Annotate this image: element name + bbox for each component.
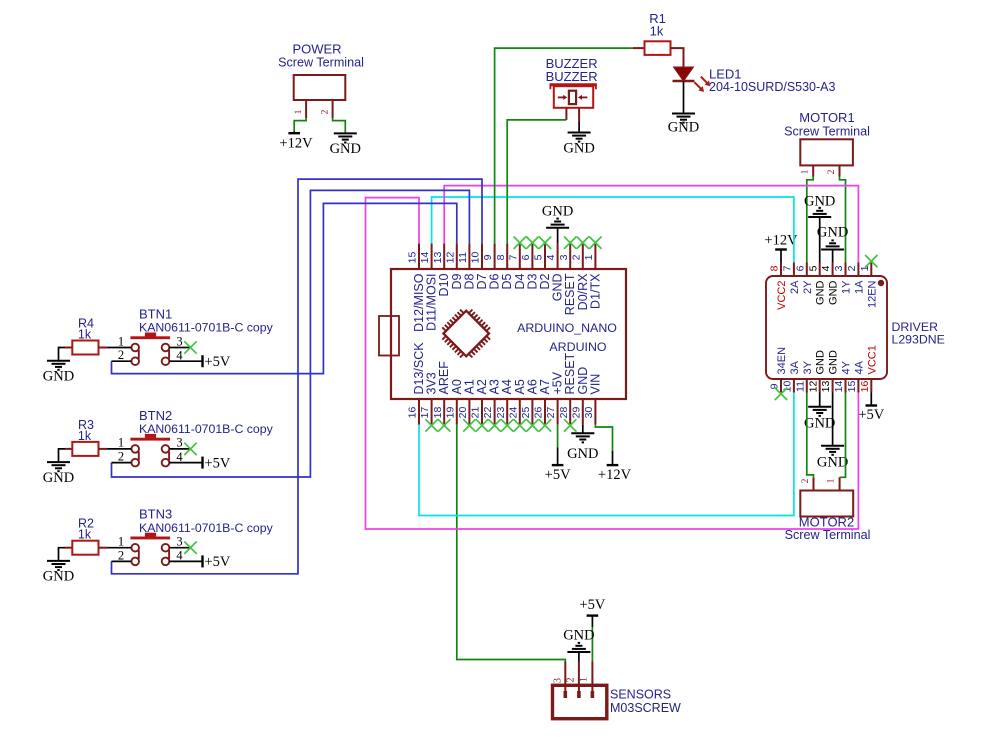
wire BUZZER pin2 to GND	[578, 122, 580, 133]
pin 29 (GND) of ARDUINO_NANO	[570, 367, 589, 425]
svg-text:2: 2	[566, 678, 577, 683]
pin 28 (RESET) of ARDUINO_NANO	[558, 352, 577, 424]
power +5V (SENSORS)	[579, 597, 605, 616]
svg-text:2: 2	[570, 254, 582, 260]
pin 5 (D2) of ARDUINO_NANO	[533, 243, 552, 289]
svg-text:1k: 1k	[78, 328, 92, 342]
svg-text:15: 15	[846, 381, 858, 393]
wire LED1 to GND	[683, 81, 685, 114]
svg-text:1: 1	[859, 265, 871, 271]
svg-text:MOTOR1: MOTOR1	[799, 110, 854, 125]
svg-text:3: 3	[176, 334, 182, 348]
no-connect flag DRIVER pin9 34EN	[775, 388, 787, 400]
svg-text:1k: 1k	[78, 429, 92, 443]
svg-text:KAN0611-0701B-C copy: KAN0611-0701B-C copy	[139, 521, 274, 535]
pin 5 (GND) of DRIVER	[807, 263, 826, 305]
svg-text:1: 1	[118, 334, 124, 348]
svg-text:2: 2	[846, 265, 858, 271]
pin 13 (GND) of DRIVER	[820, 350, 839, 393]
pin 14 (D11/MOSI) of ARDUINO_NANO	[419, 243, 438, 331]
svg-text:12EN: 12EN	[866, 280, 878, 308]
svg-text:4: 4	[820, 265, 832, 271]
pin 3 (RESET) of ARDUINO_NANO	[558, 243, 577, 315]
ground (nano pin4)	[542, 203, 573, 227]
svg-text:23: 23	[495, 407, 507, 419]
pin 17 (3V3) of ARDUINO_NANO	[419, 372, 438, 424]
svg-text:GND: GND	[563, 627, 594, 643]
svg-text:29: 29	[570, 407, 582, 419]
power +12V (POWER)	[279, 131, 313, 151]
svg-text:+5V: +5V	[205, 455, 231, 471]
ground (DRIVER pin13)	[817, 446, 848, 471]
pushbutton BTN2 KAN0611-0701B-C copy	[108, 408, 274, 467]
svg-text:16: 16	[407, 407, 419, 419]
pin 8 (VCC2) of DRIVER	[769, 263, 788, 310]
pin 23 (A4) of ARDUINO_NANO	[495, 379, 514, 425]
svg-text:BTN2: BTN2	[139, 408, 172, 423]
svg-text:7: 7	[782, 265, 794, 271]
svg-text:ARDUINO_NANO: ARDUINO_NANO	[517, 321, 617, 335]
svg-text:L293DNE: L293DNE	[892, 333, 945, 347]
svg-text:1: 1	[118, 535, 124, 549]
pin 16 (D13/SCK) of ARDUINO_NANO	[407, 342, 426, 425]
wire net D5 (green): nano pin8 to BUZZER	[507, 120, 566, 243]
svg-text:ARDUINO: ARDUINO	[549, 340, 606, 354]
ground (BTN3 side)	[43, 561, 74, 585]
svg-text:27: 27	[545, 407, 557, 419]
svg-text:GND: GND	[542, 203, 573, 219]
ground (DRIVER pin5)	[804, 194, 835, 218]
wire R3 to GND	[59, 449, 66, 462]
pin 14 (4Y) of DRIVER	[833, 360, 852, 392]
wire DRIVER 3Y to MOTOR2 pin2	[807, 393, 814, 478]
svg-text:17: 17	[419, 407, 431, 419]
wire SENSORS pin2 to GND	[578, 652, 580, 662]
svg-text:6: 6	[794, 265, 806, 271]
wire POWER pin1 to +12V	[294, 118, 306, 131]
svg-text:13: 13	[432, 252, 444, 264]
pin 24 (A5) of ARDUINO_NANO	[507, 379, 526, 425]
svg-text:D1/TX: D1/TX	[588, 273, 602, 309]
svg-text:15: 15	[407, 252, 419, 264]
svg-text:4: 4	[176, 450, 183, 464]
svg-text:GND: GND	[817, 454, 848, 470]
connector MOTOR2 Screw Terminal	[785, 477, 871, 542]
svg-text:3: 3	[833, 265, 845, 271]
wire DRIVER pin5 GND	[819, 217, 821, 263]
svg-text:+5V: +5V	[205, 554, 231, 570]
svg-text:8: 8	[495, 254, 507, 260]
svg-text:1k: 1k	[78, 528, 92, 542]
svg-text:+5V: +5V	[205, 354, 231, 370]
ground (LED1)	[668, 114, 699, 136]
svg-text:18: 18	[432, 407, 444, 419]
svg-text:GND: GND	[330, 141, 361, 157]
resistor R3	[65, 418, 108, 456]
IC DRIVER L293DNE	[766, 276, 945, 379]
wire MOTOR1 pin2 to driver 1Y	[840, 177, 846, 263]
ground (nano pin29)	[567, 433, 598, 462]
power +5V (BTN1 pin4)	[203, 354, 231, 370]
pin 11 (3Y) of DRIVER	[794, 360, 813, 392]
wire DRIVER pin4 GND	[832, 250, 834, 263]
svg-text:4: 4	[545, 254, 557, 260]
no-connect flag BTN2 pin3	[184, 443, 196, 455]
wire net D7 (blue): nano pin10 to BTN3	[112, 179, 483, 574]
svg-text:Screw Terminal: Screw Terminal	[278, 56, 364, 70]
svg-text:25: 25	[520, 407, 532, 419]
svg-text:+5V: +5V	[858, 407, 884, 423]
pin 15 (4A) of DRIVER	[846, 360, 865, 392]
no-connect flag DRIVER pin1 12EN	[865, 255, 877, 267]
wire R4 to GND	[59, 348, 66, 361]
svg-text:14: 14	[833, 381, 845, 393]
svg-text:POWER: POWER	[292, 42, 341, 57]
svg-text:4A: 4A	[853, 360, 865, 374]
wire DRIVER VCC2 to +12V	[780, 250, 782, 263]
svg-text:1A: 1A	[853, 280, 865, 294]
wire DRIVER pin12 GND	[819, 393, 821, 407]
svg-text:30: 30	[583, 407, 595, 419]
svg-text:11: 11	[457, 252, 469, 263]
svg-text:24: 24	[507, 407, 519, 419]
wire nano A0 to SENSORS pin3	[457, 425, 566, 662]
svg-text:KAN0611-0701B-C copy: KAN0611-0701B-C copy	[139, 422, 274, 436]
pin 9 (D6) of ARDUINO_NANO	[482, 243, 501, 289]
svg-text:22: 22	[482, 407, 494, 419]
ground (DRIVER pin4)	[817, 225, 848, 250]
no-connect flag BTN3 pin3	[184, 542, 196, 554]
svg-text:5: 5	[533, 254, 545, 260]
svg-text:2Y: 2Y	[802, 280, 814, 294]
pin 4 (GND) of DRIVER	[820, 263, 839, 305]
wire R1 to LED1	[682, 48, 684, 67]
wire nano pin27 to +5V	[557, 425, 559, 465]
svg-text:3: 3	[552, 678, 563, 683]
ground (BTN2 side)	[43, 462, 74, 486]
IC chip glyph (diamond)	[442, 310, 490, 358]
svg-text:GND: GND	[804, 194, 835, 210]
svg-text:11: 11	[794, 381, 806, 392]
no-connect flag BTN1 pin3	[184, 341, 196, 353]
svg-text:Screw Terminal: Screw Terminal	[784, 124, 870, 138]
svg-text:+12V: +12V	[598, 467, 632, 483]
ground (DRIVER pin12)	[804, 407, 835, 432]
svg-text:3: 3	[558, 254, 570, 260]
svg-text:BTN3: BTN3	[139, 507, 172, 522]
svg-text:8: 8	[769, 265, 781, 271]
pin 7 (2A) of DRIVER	[782, 263, 801, 294]
pin 27 (+5V) of ARDUINO_NANO	[545, 371, 564, 424]
svg-text:GND: GND	[567, 446, 598, 462]
pin 4 (GND) of ARDUINO_NANO	[545, 243, 564, 301]
power +5V (nano pin27)	[545, 465, 571, 483]
svg-text:VCC1: VCC1	[866, 345, 878, 374]
svg-text:14: 14	[419, 252, 431, 264]
power +12V (nano VIN)	[598, 465, 632, 483]
resistor R2	[65, 517, 108, 555]
wire net D8 (blue): nano pin11 to BTN2	[112, 190, 470, 477]
svg-text:Screw Terminal: Screw Terminal	[785, 528, 871, 542]
pin 12 (D9) of ARDUINO_NANO	[444, 243, 463, 289]
pin 10 (D7) of ARDUINO_NANO	[470, 243, 489, 289]
pin 21 (A2) of ARDUINO_NANO	[470, 379, 489, 425]
svg-text:1: 1	[118, 436, 124, 450]
pin 6 (2Y) of DRIVER	[794, 263, 813, 294]
svg-text:1: 1	[294, 109, 304, 114]
svg-text:SENSORS: SENSORS	[610, 688, 671, 702]
connector SENSORS M03SCREW	[552, 662, 681, 719]
svg-text:16: 16	[859, 381, 871, 393]
svg-text:5: 5	[807, 265, 819, 271]
pin 6 (D3) of ARDUINO_NANO	[520, 243, 539, 289]
svg-text:3A: 3A	[789, 360, 801, 374]
wire net D6 (green): nano pin9 to R1	[495, 48, 633, 243]
no-connect flags ARDUINO_NANO top pins D4,D3,D2,RESET,D0/RX,D1/TX	[514, 237, 602, 249]
svg-text:3: 3	[176, 436, 182, 450]
ground (BUZZER)	[563, 133, 594, 157]
svg-text:GND: GND	[668, 120, 699, 136]
pin 10 (3A) of DRIVER	[782, 360, 801, 392]
svg-text:VIN: VIN	[588, 374, 602, 395]
svg-text:19: 19	[444, 407, 456, 419]
wire POWER pin2 to GND	[333, 118, 346, 133]
wire net D12/MISO (magenta): nano pin15 to DRIVER 4A	[366, 198, 859, 529]
svg-text:BUZZER: BUZZER	[546, 69, 598, 84]
ground (SENSORS pin2)	[563, 627, 594, 652]
svg-text:7: 7	[507, 254, 519, 260]
svg-text:GND: GND	[43, 569, 74, 585]
svg-text:GND: GND	[563, 140, 594, 156]
wire net D13/SCK (cyan): nano pin16 to DRIVER 3A	[419, 393, 794, 516]
svg-text:+12V: +12V	[279, 136, 313, 152]
pin 15 (D12/MISO) of ARDUINO_NANO	[407, 243, 426, 331]
svg-text:13: 13	[820, 381, 832, 393]
svg-text:4: 4	[176, 348, 183, 362]
wire nano pin30 VIN to +12V	[595, 425, 612, 465]
pin 7 (D4) of ARDUINO_NANO	[507, 243, 526, 289]
wire nano pin29 to GND	[582, 425, 584, 434]
resistor R4	[65, 317, 108, 355]
svg-text:GND: GND	[815, 280, 827, 305]
pin 12 (GND) of DRIVER	[807, 350, 826, 393]
svg-text:204-10SURD/S530-A3: 204-10SURD/S530-A3	[709, 80, 836, 94]
svg-text:2: 2	[801, 478, 811, 483]
wire R2 to GND	[59, 548, 66, 561]
svg-text:GND: GND	[817, 225, 848, 241]
svg-text:1: 1	[801, 169, 811, 174]
pin 13 (D10) of ARDUINO_NANO	[432, 243, 451, 296]
pin 11 (D8) of ARDUINO_NANO	[457, 243, 476, 289]
pin 3 (1Y) of DRIVER	[833, 263, 852, 294]
wire net D11/MOSI (cyan): nano pin14 to DRIVER 2A	[432, 197, 794, 263]
svg-text:4: 4	[176, 549, 183, 563]
svg-text:26: 26	[533, 407, 545, 419]
power +5V (BTN3 pin4)	[203, 554, 231, 570]
ground (BTN1 side)	[43, 361, 74, 385]
wire GND of nano pin4	[557, 228, 559, 244]
svg-text:1: 1	[827, 478, 837, 483]
pin 19 (A0) of ARDUINO_NANO	[444, 379, 463, 425]
no-connect flags ARDUINO_NANO bottom pins 3V3,AREF,A1..A7,RESET	[425, 419, 576, 431]
pin 8 (D5) of ARDUINO_NANO	[495, 243, 514, 289]
svg-text:KAN0611-0701B-C copy: KAN0611-0701B-C copy	[139, 321, 274, 335]
svg-text:3Y: 3Y	[802, 360, 814, 374]
pin 2 (D0/RX) of ARDUINO_NANO	[570, 243, 589, 310]
svg-text:1: 1	[583, 254, 595, 260]
wire MOTOR1 pin1 to driver 2Y	[807, 177, 813, 263]
svg-text:+5V: +5V	[545, 467, 571, 483]
pin 1 (D1/TX) of ARDUINO_NANO	[583, 243, 602, 309]
svg-text:12: 12	[807, 381, 819, 393]
wire SENSORS pin1 to +5V	[591, 616, 593, 662]
svg-text:2: 2	[118, 348, 124, 362]
connector POWER Screw Terminal	[278, 42, 364, 119]
pin 22 (A3) of ARDUINO_NANO	[482, 379, 501, 425]
svg-text:2: 2	[118, 548, 124, 562]
svg-text:GND: GND	[815, 350, 827, 375]
LED LED1	[673, 67, 836, 95]
svg-text:6: 6	[520, 254, 532, 260]
pin 16 (VCC1) of DRIVER	[859, 345, 878, 392]
svg-text:BTN1: BTN1	[139, 307, 172, 322]
svg-text:10: 10	[470, 252, 482, 264]
svg-text:28: 28	[558, 407, 570, 419]
svg-text:34EN: 34EN	[776, 347, 788, 375]
svg-text:1: 1	[578, 677, 589, 682]
svg-text:1Y: 1Y	[841, 280, 853, 294]
pin 1 (12EN) of DRIVER	[859, 263, 878, 309]
svg-text:1k: 1k	[650, 24, 664, 39]
svg-text:+12V: +12V	[764, 232, 798, 248]
buzzer BUZZER	[546, 56, 598, 122]
power +5V (BTN2 pin4)	[203, 455, 231, 471]
svg-text:GND: GND	[43, 368, 74, 384]
pushbutton BTN1 KAN0611-0701B-C copy	[108, 307, 274, 366]
svg-text:4Y: 4Y	[841, 360, 853, 374]
svg-text:9: 9	[482, 254, 494, 260]
wire DRIVER VCC1 to +5V	[870, 393, 872, 406]
pin 26 (A7) of ARDUINO_NANO	[533, 379, 552, 425]
svg-text:21: 21	[470, 407, 482, 419]
svg-text:GND: GND	[828, 350, 840, 375]
wire net D10 (magenta): nano pin13 to DRIVER 1A	[444, 186, 858, 263]
pin 18 (AREF) of ARDUINO_NANO	[432, 361, 451, 425]
svg-text:GND: GND	[828, 280, 840, 305]
power +5V (DRIVER VCC1)	[858, 406, 884, 424]
IC U_arduino ARDUINO_NANO	[379, 269, 626, 399]
svg-text:GND: GND	[804, 416, 835, 432]
pin 30 (VIN) of ARDUINO_NANO	[583, 374, 602, 425]
connector MOTOR1 Screw Terminal	[784, 110, 870, 177]
svg-text:+5V: +5V	[579, 597, 605, 613]
svg-text:2: 2	[118, 450, 124, 464]
svg-text:12: 12	[444, 252, 456, 264]
pin 20 (A1) of ARDUINO_NANO	[457, 379, 476, 425]
svg-text:2A: 2A	[789, 280, 801, 294]
power +12V (DRIVER VCC2)	[764, 232, 798, 249]
pin 25 (A6) of ARDUINO_NANO	[520, 379, 539, 425]
svg-text:M03SCREW: M03SCREW	[610, 701, 681, 715]
svg-text:20: 20	[457, 407, 469, 419]
svg-text:2: 2	[320, 109, 330, 114]
pin 2 (1A) of DRIVER	[846, 263, 865, 294]
svg-text:3: 3	[176, 535, 182, 549]
resistor R1	[633, 11, 682, 55]
svg-text:GND: GND	[43, 470, 74, 486]
wire DRIVER pin13 GND	[832, 393, 834, 446]
svg-text:VCC2: VCC2	[776, 281, 788, 310]
svg-text:2: 2	[827, 169, 837, 174]
wire DRIVER 4Y to MOTOR2 pin1	[840, 393, 846, 478]
pin 9 (34EN) of DRIVER	[769, 347, 788, 393]
wire net D9 (blue): nano pin12 to BTN1	[112, 203, 457, 373]
pushbutton BTN3 KAN0611-0701B-C copy	[108, 507, 274, 566]
ground (POWER)	[330, 133, 361, 156]
